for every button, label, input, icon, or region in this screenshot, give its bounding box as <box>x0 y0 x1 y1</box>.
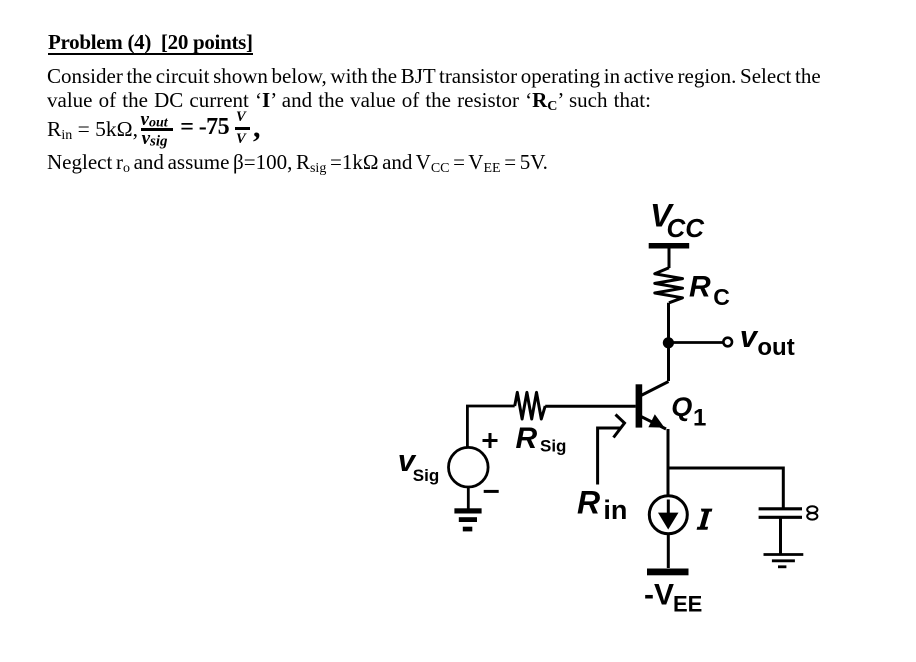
Rsig label <box>516 422 567 456</box>
ground under capacitor <box>764 555 804 567</box>
base wire <box>545 405 635 408</box>
VEE rail bar <box>647 569 689 576</box>
paragraph line 2 <box>47 90 651 114</box>
svg-text:Q: Q <box>671 392 692 422</box>
equation = -75 <box>180 115 229 139</box>
capacitor bottom plate <box>759 516 802 519</box>
Q1 label <box>671 392 706 431</box>
title <box>48 32 253 55</box>
plus sign <box>483 433 498 448</box>
svg-text:out: out <box>757 334 794 361</box>
wire vsig to ground <box>467 487 470 509</box>
transistor Q1 collector diagonal <box>641 382 669 396</box>
wire source to VEE bar <box>667 534 670 569</box>
wire VCC to RC <box>668 248 671 268</box>
svg-text:R: R <box>516 422 538 455</box>
wire vsig corner to Rsig <box>467 406 514 447</box>
source Vsig <box>449 447 489 487</box>
neglect line <box>47 152 548 176</box>
svg-text:R: R <box>689 270 711 303</box>
paragraph line 1 <box>47 66 821 87</box>
ground under vsig <box>454 508 481 531</box>
VCC rail bar <box>649 243 690 249</box>
node collector junction dot <box>663 337 674 348</box>
wire capacitor to ground <box>779 517 782 554</box>
wire emitter to capacitor <box>668 468 783 509</box>
equation V/V fraction <box>236 110 246 125</box>
I label <box>697 509 713 530</box>
VCC supply label <box>650 198 705 243</box>
Rin arrow <box>598 415 625 485</box>
svg-text:in: in <box>603 495 627 525</box>
RC label <box>689 270 730 310</box>
svg-text:Sig: Sig <box>413 466 439 485</box>
svg-text:C: C <box>713 284 730 310</box>
transistor Q1 emitter arrowhead <box>648 414 664 427</box>
wire RC to collector node <box>667 303 670 381</box>
resistor Rsig <box>515 392 546 419</box>
current source arrow <box>667 500 670 515</box>
svg-text:R: R <box>577 485 600 521</box>
wire node to vout terminal <box>668 341 723 344</box>
svg-text:CC: CC <box>667 213 706 243</box>
svg-text:-V: -V <box>644 579 674 612</box>
transistor Q1 base bar <box>636 384 643 427</box>
infinity label <box>807 506 817 519</box>
svg-text:EE: EE <box>673 592 702 617</box>
resistor RC <box>655 268 683 303</box>
equation: Rin = 5kOhm <box>47 119 138 143</box>
svg-text:Sig: Sig <box>540 437 566 456</box>
minus sign <box>484 490 499 493</box>
-VEE label <box>644 579 702 617</box>
emitter wire down <box>667 429 670 495</box>
vsig label <box>398 443 440 485</box>
capacitor top plate <box>759 507 802 510</box>
vout label <box>740 319 795 361</box>
current source I circle <box>649 496 687 534</box>
vout open terminal <box>723 338 732 347</box>
svg-text:v: v <box>740 319 759 354</box>
transistor Q1 emitter diagonal <box>641 417 666 430</box>
Rin label <box>577 485 627 526</box>
equation fraction vout/vsig <box>141 110 168 130</box>
svg-text:1: 1 <box>693 404 706 431</box>
